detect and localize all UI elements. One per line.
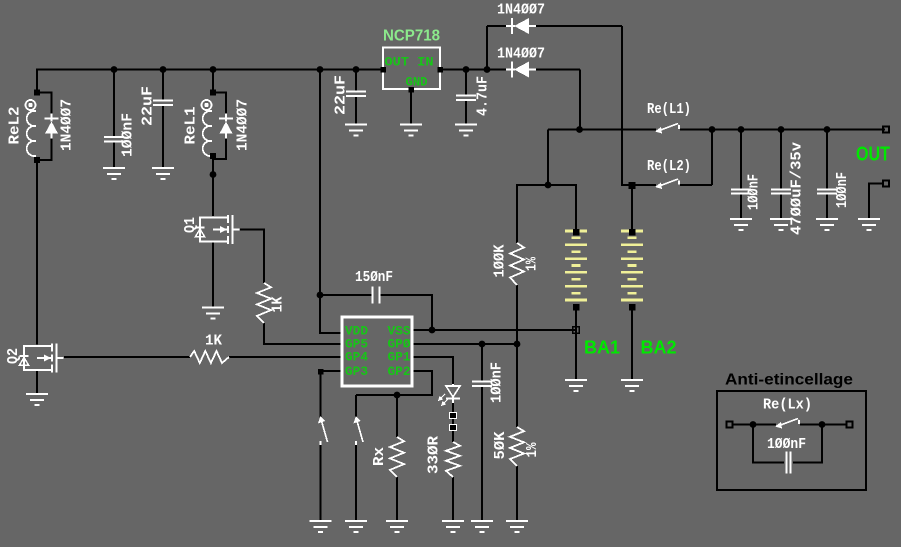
pad GP3 wire [318,369,324,375]
ground at input 22uF [152,168,174,179]
svg-text:Re(L1): Re(L1) [647,101,691,118]
capacitor 100nF at GP0 [472,382,492,387]
resistor 330R [446,442,460,477]
wire: anti box switch to right [800,424,822,426]
wire: anti box left segment [732,424,753,426]
node: junction GP0/100nF [479,341,486,348]
svg-text:1K: 1K [205,333,222,350]
svg-text:33ØR: 33ØR [426,436,443,474]
ground OUT- terminal [858,219,880,230]
wire: BA1 node to battery 1 [548,185,576,231]
wire: VDD node branch 150nF left [320,294,372,296]
transistor Q1 MOSFET [213,218,228,242]
capacitor 100nF output a [731,190,751,194]
annotation box anti-etincellage [717,391,866,490]
wire: OUT line with Re(L1) contact gap [548,129,656,131]
wire: 100nF leg [113,70,115,137]
node: junction out-cap a [738,126,745,133]
node: junction GP0/100K/50K [514,341,521,348]
svg-text:ReL1: ReL1 [183,107,200,145]
svg-text:1%: 1% [524,442,541,458]
node: junction VDD/150nF [317,292,324,299]
wire: upper diode line to BA2 drop [487,25,512,27]
wire: left drop to ReL2 [36,70,38,93]
wire: anti bypass path [753,425,784,463]
resistor 50K 1% [510,427,524,466]
capacitor 100nF input [104,137,124,142]
wire: 22uF(right) leg [355,70,357,92]
capacitor 150nF across IC supply [373,287,380,304]
op regulator U1 NCP718 box [383,48,440,90]
capacitor 22uF input [153,101,173,106]
relay contact Re(L2) [658,179,678,187]
wire: GP1 to LED chain [412,357,453,384]
pin pads of U1 [380,67,386,73]
wire: GP0 line [412,343,517,345]
svg-text:4.7uF: 4.7uF [475,76,492,116]
svg-text:GP4: GP4 [345,350,368,365]
ground SW1 [310,521,332,532]
terminal OUT- [883,181,889,187]
wire: switch2 leg [355,395,357,417]
wire: battery2 drop [631,188,633,231]
IC U2 box [342,317,412,386]
diode D4 freewheel across ReL2 [37,93,52,115]
capacitor 4.7uF [456,96,476,101]
wire: ReL1 bottom to Q1 drain [212,155,214,216]
wire: Re(L2) line from BA2 square [622,184,656,186]
wire: output cap 100nF a leg [740,130,742,190]
node: junction at diode riser [484,66,491,73]
svg-text:15ØnF: 15ØnF [355,269,393,286]
wire: lower diode output drop to OUT line [579,70,581,130]
svg-text:Q2: Q2 [5,348,22,364]
ground SW2 [345,521,367,532]
node: rail junction at ReL1 [210,66,217,73]
wire: output cap 4700uF leg [780,130,782,190]
terminal OUT+ [883,127,889,133]
node: junction anti right [819,421,826,428]
wire: Q2 source to ground [36,370,38,394]
terminal anti left [727,422,733,428]
transistor Q2 MOSFET [37,346,52,370]
wire: 100nF mid leg [481,344,483,381]
capacitor 22uF at regulator OUT [346,92,366,97]
ground output c [816,219,838,230]
node: tie square VSS to BA1 [573,327,580,334]
wire: 22uF leg [162,70,164,101]
terminal anti right [847,422,853,428]
ground 330R [442,521,464,532]
wire: OUT- terminal to ground [869,184,884,220]
wire: VDD jog into IC [320,295,342,333]
svg-text:GP1: GP1 [388,350,411,365]
svg-text:1K: 1K [270,297,287,313]
capacitor 100nF output b [817,190,837,194]
wire: 4.7uF leg [465,70,467,96]
svg-text:5ØK: 5ØK [492,432,509,460]
node: junction anti left [750,421,757,428]
svg-text:1N4ØØ7: 1N4ØØ7 [497,2,545,19]
wire: BA1 node drop [547,130,549,186]
svg-text:ReL2: ReL2 [7,107,24,145]
node: rail junction at riser [317,66,324,73]
svg-text:1ØØK: 1ØØK [492,245,509,278]
svg-text:22uF: 22uF [333,75,350,115]
svg-text:Rx: Rx [371,447,388,466]
wire: 1K vertical top to Q1 gate [240,230,264,284]
svg-text:1%: 1% [524,256,541,271]
node: junction BA1 node [545,182,552,189]
wire: ReL1 top leg [212,70,214,93]
ground output b [770,219,792,230]
node: rail junction at 22uF right [353,66,360,73]
svg-text:22uF: 22uF [140,86,157,126]
svg-text:GP3: GP3 [345,364,368,379]
relay contact Re(Lx) [778,419,798,427]
wire: anti box left to switch [753,424,776,426]
wire: Re(L2) output riser [711,130,713,186]
wire: NCP718 GND pin to ground [410,89,412,125]
switch SW1 at GP3 [322,421,328,442]
battery BA1 [565,231,587,300]
wire: riser from rail down to VDD node [319,70,321,296]
svg-text:Q1: Q1 [182,217,199,233]
capacitor 100nF anti-etincellage [787,452,791,474]
svg-text:OUT IN: OUT IN [385,55,434,70]
svg-text:Anti-etincellage: Anti-etincellage [725,372,853,389]
svg-text:1N4ØØ7: 1N4ØØ7 [235,99,252,151]
svg-text:BA2: BA2 [641,338,677,358]
svg-text:Re(L2): Re(L2) [647,158,691,175]
relay coil ReL1 [202,100,212,110]
node: square BA2 top tie [629,182,636,189]
relay coil ReL2 [26,100,36,110]
wire: BA1 node to 100K [517,185,548,243]
svg-text:1ØØnF: 1ØØnF [120,113,137,157]
ground 50K [506,521,528,532]
capacitor 4700uF/35v [771,190,791,194]
wire: GP5 to 1K vertical [264,323,342,344]
node: junction out-cap b [778,126,785,133]
relay contact Re(L1) [658,124,678,132]
svg-text:BA1: BA1 [584,338,620,358]
diode D1 1N4007 upper [511,18,513,34]
ground output a [730,219,752,230]
svg-text:1N4ØØ7: 1N4ØØ7 [497,46,545,63]
wire: riser to upper diode [486,26,488,70]
resistor 1K vertical at GP5 [257,283,271,323]
LED D5 [452,384,454,386]
wire: VSS line from IC to battery1 [412,329,576,331]
svg-text:GP2: GP2 [388,364,411,379]
battery BA2 [621,231,643,300]
svg-text:NCP718: NCP718 [383,28,440,45]
ground Q2 source [26,394,48,405]
svg-text:1N4ØØ7: 1N4ØØ7 [59,99,76,151]
node: junction out-cap c [824,126,831,133]
svg-text:1ØØnF: 1ØØnF [746,174,763,210]
node: junction below ReL1 [210,171,217,178]
ground Q1 source [202,308,224,319]
ground at input 100nF [103,168,125,179]
node: junction at 4.7uF [463,66,470,73]
node: junction GP2/Rx [394,392,401,399]
wire: 100K lower leg [516,285,518,344]
ground 22uF right [345,125,367,136]
wire: battery1 down through VSS tie to ground [575,307,577,380]
ground Rx [386,521,408,532]
ground at 4.7uF [455,125,477,136]
diode D2 1N4007 lower [511,62,513,78]
node: rail junction at 100nF [111,66,118,73]
wire: Q2 gate to 1K horizontal to GP4 [64,356,190,358]
svg-text:1ØØnF: 1ØØnF [489,362,506,403]
ground BA1 [565,380,587,391]
wire: output cap 100nF b leg [826,130,828,190]
ground BA2 [621,380,643,391]
ground 100nF GP0 [471,521,493,532]
wire: Q1 source to ground [212,241,214,308]
wire: 50K legs [516,344,518,427]
wire: anti box right segment [822,424,847,426]
node: junction diode2/OUT line [576,126,583,133]
resistor Rx [390,437,404,477]
switch SW2 at GP2 [357,421,363,442]
wire: GP3 to switch1 [323,370,342,372]
resistor 1K horizontal at GP4 [190,351,229,363]
wire: ReL2 coil bottom down to Q2 drain [36,158,38,345]
jumper square a on LED chain [450,413,457,419]
wire: LED to squares to 330R [452,403,454,442]
wire: main 5V rail from regulator OUT to left [36,69,383,71]
wire: regulator IN rail to diodes [440,69,512,71]
jumper square b on LED chain [450,425,457,431]
svg-text:OUT: OUT [856,144,890,166]
svg-text:Re(Lx): Re(Lx) [763,397,812,414]
node: junction VSS/150nF leg [429,327,436,334]
resistor 100K 1% [510,243,524,285]
wire: 150nF right side down to VSS line [380,295,432,330]
node: rail junction at 22uF [160,66,167,73]
diode D3 freewheel across ReL1 [213,93,226,115]
ground at U1 GND pin [400,125,422,136]
node: junction Re(L2)/OUT line [709,126,716,133]
wire: Rx legs [396,395,398,437]
svg-text:1ØØnF: 1ØØnF [767,436,806,453]
svg-text:1ØØnF: 1ØØnF [834,172,851,208]
svg-text:47ØØuF/35v: 47ØØuF/35v [789,142,806,235]
wire: GP2 route [356,371,432,395]
